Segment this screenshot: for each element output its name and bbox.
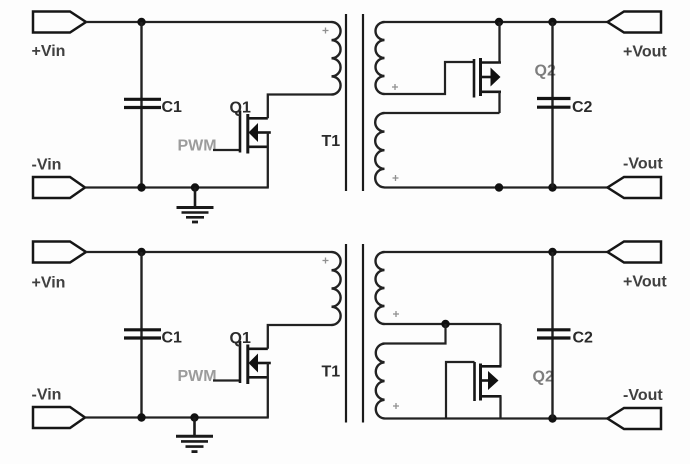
wire Q2 gate loop (bottom): [446, 362, 475, 419]
node junction C2 bottom: [548, 183, 556, 191]
svg-text:PWM: PWM: [178, 368, 217, 385]
wire secondary1 bottom / center tap (bottom): [385, 323, 501, 325]
svg-text:-Vout: -Vout: [623, 387, 663, 404]
svg-text:T1: T1: [322, 133, 341, 150]
connector +Vin (top circuit): [33, 12, 86, 33]
node junction C2 bottom (bottom): [548, 414, 556, 422]
wire Q2 source to secondary2: [498, 92, 500, 113]
svg-text:-Vin: -Vin: [32, 157, 62, 174]
connector +Vout (bottom circuit): [608, 242, 662, 263]
connector +Vout (top circuit): [608, 12, 662, 33]
polarity mark secondary 1: [392, 84, 398, 90]
wire -Vin rail: [85, 186, 269, 188]
capacitor C2: [537, 99, 571, 108]
svg-text:-Vin: -Vin: [32, 387, 62, 404]
transformer T1 secondary winding 1 (top circuit): [376, 22, 385, 94]
wire center tap to secondary2 top (bottom): [385, 324, 446, 344]
node junction C2 top: [548, 18, 556, 26]
connector -Vout (top circuit): [608, 177, 662, 198]
transformer T1 core: [346, 14, 363, 191]
capacitor C2 wire (bottom): [551, 252, 553, 419]
transformer T1 secondary winding 2 (bottom circuit): [376, 344, 385, 419]
wire secondary2 bottom to -Vout rail: [385, 186, 608, 188]
wire PWM to gate: [213, 149, 240, 151]
wire secondary1 bottom to Q2 gate: [385, 62, 475, 94]
node junction ground: [191, 183, 199, 191]
svg-text:+Vout: +Vout: [623, 274, 667, 291]
connector -Vin (top circuit): [33, 177, 85, 198]
capacitor C1 wire: [140, 22, 142, 188]
node junction +Vin/C1 (bottom): [137, 248, 145, 256]
wire secondary2 top: [385, 112, 500, 114]
capacitor C2 (bottom): [537, 330, 571, 338]
capacitor C1 (bottom): [124, 330, 161, 338]
node junction center tap (bottom): [441, 320, 449, 328]
svg-text:C2: C2: [572, 99, 593, 116]
svg-text:-Vout: -Vout: [623, 156, 663, 173]
capacitor C2 wire: [551, 22, 553, 188]
ground: [177, 188, 214, 223]
capacitor C1: [124, 99, 161, 107]
connector -Vout (bottom circuit): [608, 408, 662, 429]
transistor Q1 (top circuit): [240, 111, 271, 154]
node junction +Vin/C1: [137, 18, 145, 26]
svg-text:Q1: Q1: [230, 330, 251, 347]
polarity mark primary: [323, 28, 329, 34]
svg-text:Q1: Q1: [230, 100, 251, 117]
node junction -Vin/C1: [137, 183, 145, 191]
wire +Vin rail: [86, 21, 332, 23]
connector +Vin (bottom circuit): [33, 242, 86, 263]
transformer T1 primary winding (top circuit): [332, 22, 341, 95]
wire +Vin rail (bottom): [86, 251, 332, 253]
wire Q2 source to -Vout rail (bottom): [499, 396, 501, 418]
wire secondary1 top to +Vout rail (bottom): [385, 251, 608, 253]
capacitor C1 wire (bottom): [140, 252, 142, 418]
transformer T1 primary winding (bottom circuit): [332, 252, 341, 325]
svg-text:+Vin: +Vin: [32, 43, 66, 60]
svg-text:C1: C1: [162, 99, 183, 116]
wire -Vin rail (bottom): [85, 416, 269, 418]
wire Q2 drain to +Vout rail: [498, 22, 500, 64]
transformer T1 core (bottom): [346, 244, 363, 423]
wire Q1 drain to primary (bottom): [268, 325, 332, 349]
ground (bottom): [176, 418, 213, 452]
wire Q1 source to -Vin rail (bottom): [267, 363, 269, 418]
polarity mark secondary 1 (bottom): [393, 311, 399, 317]
transistor Q1 (bottom circuit): [240, 341, 271, 384]
svg-text:C1: C1: [162, 330, 183, 347]
wire PWM to gate (bottom): [213, 379, 240, 381]
polarity mark secondary 2: [393, 175, 399, 181]
wire secondary2 bottom to -Vout rail (bottom): [385, 417, 610, 419]
svg-text:Q2: Q2: [533, 369, 554, 386]
node junction on -Vout rail: [495, 183, 503, 191]
svg-text:C2: C2: [573, 330, 594, 347]
node junction ground (bottom): [190, 413, 198, 421]
svg-text:T1: T1: [322, 364, 341, 381]
wire secondary1 top to +Vout rail: [385, 21, 608, 23]
transistor Q2 (top circuit): [474, 58, 501, 98]
transformer T1 secondary winding 2 (top circuit): [375, 113, 384, 187]
transformer T1 secondary winding 1 (bottom circuit): [376, 252, 385, 324]
wire Q1 drain to primary: [268, 95, 332, 119]
polarity mark secondary 2 (bottom): [393, 403, 399, 409]
transistor Q2 (bottom circuit): [475, 362, 502, 401]
wire Q1 source to -Vin rail: [267, 133, 269, 188]
wire center tap to Q2 drain (bottom): [499, 324, 501, 366]
svg-text:PWM: PWM: [178, 138, 217, 155]
connector -Vin (bottom circuit): [33, 407, 85, 428]
polarity mark primary (bottom): [323, 258, 329, 264]
svg-text:+Vout: +Vout: [623, 44, 667, 61]
svg-text:+Vin: +Vin: [32, 275, 66, 292]
node junction Q2 drain: [495, 18, 503, 26]
node junction -Vin/C1 (bottom): [137, 413, 145, 421]
node junction C2 top (bottom): [548, 248, 556, 256]
